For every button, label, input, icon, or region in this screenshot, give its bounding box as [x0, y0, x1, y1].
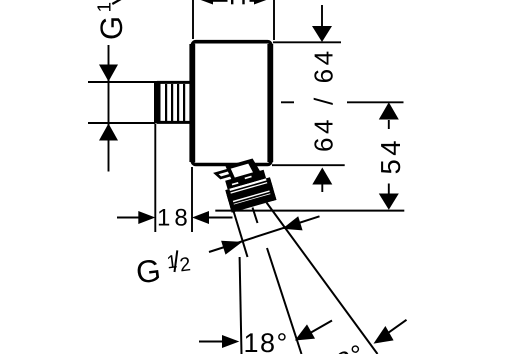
thread nipple: left face — [154, 81, 161, 124]
thread nipple: thread lines — [166, 84, 184, 121]
fan: rest axis stub — [234, 211, 248, 257]
body square escutcheon — [192, 42, 271, 165]
outlet: neck right thick wedge — [247, 160, 258, 175]
fan: right line — [267, 203, 378, 354]
64/64 dimension: upper stem — [321, 5, 323, 27]
top dimension 44: dimension line segments — [213, 0, 228, 2]
G1/2 bottom fraction slash — [175, 250, 178, 272]
near-outlet dimension: right arrowhead — [282, 216, 302, 230]
near-outlet dimension: left arrowhead — [221, 241, 242, 255]
left 18deg dimension: right-pointing arrowhead — [222, 335, 239, 348]
54 dimension: lower stem — [388, 184, 390, 194]
18 dimension: right arrowhead — [192, 211, 209, 224]
body right edge thick — [267, 44, 273, 162]
18 dimension: right leader — [209, 217, 233, 219]
outlet: flange band — [225, 170, 266, 190]
left G1/2 fraction slash fragment — [112, 0, 121, 4]
svg-text:54: 54 — [375, 137, 406, 175]
svg-text:18: 18 — [157, 205, 192, 232]
left 18deg dimension: left leader — [199, 341, 222, 343]
thread nipple: bottom edge — [157, 121, 192, 124]
54 dimension: upper stem — [388, 120, 390, 129]
64/64 dimension: center dash — [281, 101, 294, 103]
G1/2 dimension: bottom extension line — [88, 122, 155, 124]
right 18deg dimension: right leader — [388, 320, 407, 333]
top dimension 44: right extension line — [273, 0, 275, 40]
outlet: left tab — [216, 168, 237, 179]
54 dimension: up arrowhead — [379, 102, 399, 119]
18 dimension: left leader — [117, 217, 139, 219]
left 18deg dimension: right leader — [311, 321, 332, 333]
fan: vertical reference line — [240, 257, 242, 354]
svg-text:64 / 64: 64 / 64 — [309, 47, 339, 152]
64/64 dimension: lower stem — [321, 185, 323, 193]
fan: middle line upper segment — [253, 208, 258, 224]
svg-text:18°: 18° — [244, 328, 289, 354]
G1/2 dimension: up arrowhead — [99, 124, 118, 141]
64/64 dimension: top extension line — [273, 41, 341, 43]
18 dimension: right extension line — [191, 167, 193, 232]
top dimension 44: left extension line — [192, 0, 194, 39]
centerline right segment — [347, 101, 404, 103]
18 dimension: left extension line — [154, 124, 156, 232]
left 18deg dimension: down-left arrowhead — [295, 324, 315, 340]
54 dimension: down arrowhead — [379, 194, 399, 210]
thread nipple: top edge — [157, 81, 192, 84]
18 dimension: left arrowhead — [138, 211, 155, 224]
G1/2 dimension: top extension line — [88, 81, 155, 83]
svg-text:G: G — [134, 252, 163, 291]
top dimension 44: left arrowhead — [194, 0, 213, 5]
G1/2 dimension: dimension line — [108, 45, 110, 172]
body left edge thick — [189, 44, 195, 162]
near-outlet dimension leader — [209, 216, 320, 252]
outlet: hose connector with ribs — [225, 177, 276, 212]
fan: middle line lower segment — [267, 248, 302, 354]
64/64 dimension: down arrowhead — [312, 26, 332, 42]
body bottom extension line to right — [272, 164, 345, 166]
outlet assembly tilted — [215, 157, 276, 214]
G1/2 dimension: down arrowhead — [99, 65, 118, 82]
right 18deg dimension: down-left arrowhead — [374, 326, 394, 344]
top dimension 44: right arrowhead — [254, 0, 273, 5]
svg-text:G: G — [94, 16, 129, 40]
top dimension 44: digit stubs (44 cut off at top) — [231, 0, 233, 4]
long horizontal reference line — [215, 210, 404, 212]
outlet: neck — [228, 160, 259, 181]
64/64 dimension: up arrowhead — [312, 168, 332, 185]
